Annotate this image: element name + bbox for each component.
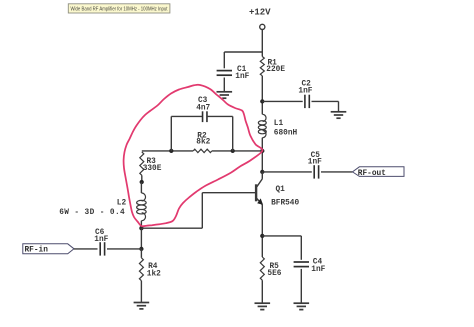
wire L1 to collector node [261,138,263,172]
transistor Q1 [256,179,262,205]
ground C2 [331,112,347,118]
junction emitter node [260,234,264,238]
svg-text:4n7: 4n7 [196,105,210,113]
wire C3 top right [207,115,233,117]
net flag RF-in [23,244,74,254]
wire C4 to ground [300,269,302,303]
wire C6 to node [107,248,141,250]
wire R5 to ground [261,280,263,303]
inductor L1 [258,114,266,137]
wire feedback right segment [212,150,262,152]
resistor R3 [140,152,144,175]
junction C3 left [169,149,173,153]
Q1 emitter arrow [257,198,263,205]
wire +12V to R1 [261,30,263,57]
+12V terminal [260,24,265,29]
svg-text:1nF: 1nF [235,73,249,81]
wire collector vertical [261,172,263,179]
svg-text:+12V: +12V [249,7,271,17]
wire L2 to base node [140,221,142,229]
wire R3 to L2 [141,175,143,182]
ground R5 [255,303,271,309]
inductor L2 [137,193,147,221]
wire feedback left segment [142,150,193,152]
wire C4 top stub [300,236,302,260]
junction C3 right [231,149,235,153]
svg-text:8k2: 8k2 [196,139,210,147]
junction R1/C2 node [260,99,264,103]
wire C1 to ground [223,78,225,92]
capacitor C2 [305,95,309,108]
resistor R4 [139,258,143,281]
svg-text:Wide Band RF Amplifier for 10M: Wide Band RF Amplifier for 10MHz - 100MH… [71,7,168,13]
wire C3 right vertical [232,116,234,150]
svg-text:6W - 3D - 0.4: 6W - 3D - 0.4 [59,209,125,217]
wire base route bottom [141,227,202,229]
svg-text:5E6: 5E6 [267,270,281,278]
net flag RF-out [353,167,405,177]
wire node to R4 [140,249,142,258]
wire C5 to RF-out [321,171,353,173]
wire C3 left vertical [170,116,172,150]
wire L2 top stub [140,182,142,193]
ground C1 [217,92,233,98]
svg-text:L1: L1 [274,120,284,128]
freehand pink highlight loop [124,85,263,227]
wire to C5 [262,171,312,173]
wire branch to C1 [224,51,262,53]
junction L1/feedback node [260,149,264,153]
resistor R2 [193,149,212,153]
wire C1 top stub [223,52,225,68]
svg-text:Q1: Q1 [276,186,286,194]
svg-text:1nF: 1nF [311,266,325,274]
svg-text:1nF: 1nF [298,88,312,96]
wire base route to Q1 [202,192,255,194]
svg-text:L2: L2 [117,200,127,208]
svg-text:1nF: 1nF [308,159,322,167]
svg-text:330E: 330E [143,165,162,173]
resistor R1 [260,57,264,76]
svg-text:220E: 220E [266,66,285,74]
svg-text:1nF: 1nF [94,236,108,244]
wire to C2 [262,100,302,102]
wire to C4 [262,235,301,237]
wire C3 top left [171,115,202,117]
svg-text:RF-in: RF-in [25,247,49,255]
wire emitter down [261,205,263,257]
svg-text:680nH: 680nH [274,129,298,137]
wire R1 to L1 [261,76,263,115]
junction R3/L2 [140,180,144,184]
wire to input node [140,228,142,249]
ground R4 [134,303,150,309]
wire down to ground [338,101,340,111]
wire base route vertical [201,193,203,229]
capacitor C4 [294,262,309,267]
svg-text:BFR540: BFR540 [271,199,299,207]
wire R4 to ground [140,281,142,303]
capacitor C6 [100,242,104,255]
svg-text:RF-out: RF-out [358,170,386,178]
capacitor C1 [217,71,232,76]
junction C6/R4 [139,247,143,251]
ground C4 [294,303,310,309]
junction collector/RF-out node [260,170,264,174]
capacitor C3 [203,111,207,122]
junction L2 bottom [139,226,143,230]
svg-text:1k2: 1k2 [147,271,161,279]
capacitor C5 [314,165,318,178]
wire RF-in to C6 [74,248,98,250]
title box [68,4,170,13]
resistor R5 [260,257,264,280]
wire C2 to ground corner [312,100,339,102]
